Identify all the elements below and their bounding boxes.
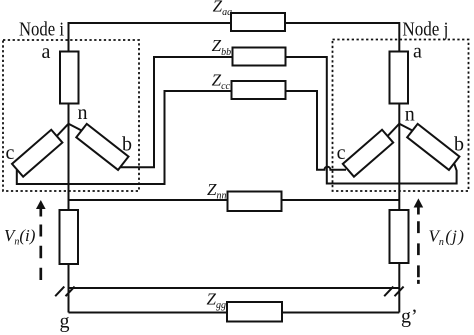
svg-text:g: g [60,311,70,333]
impedance Zcc box [232,81,286,99]
node j dashed boundary [333,40,469,192]
winding b node i [76,124,128,170]
winding a node i [60,52,79,104]
svg-text:n: n [405,103,415,125]
impedance Zaa box [231,13,285,31]
wire Zbb bus: node i b-end riser, horizontal, node j riser to b [120,57,456,184]
svg-text:c: c [337,142,346,164]
wire Zgg bottom bus [69,312,400,314]
wire node i center spine (a bottom through n to ground corner) [68,104,70,313]
impedance Znn box [228,192,282,212]
svg-text:Zbb: Zbb [212,36,231,58]
wire Zaa top bus (node i a-top to node j a-top) [69,23,400,52]
wire Zcc bus: node i c-end stub and horizontal, riser, node j side with hop [17,91,346,184]
wire node i n to winding b [69,124,82,131]
arrow Vn(i) dashed with head [36,200,46,280]
svg-text:Zgg: Zgg [207,290,226,312]
arrow Vn(j) dashed with head [414,198,424,284]
wire Znn bus [69,199,400,201]
svg-text:Node i: Node i [19,18,64,40]
svg-text:a: a [42,41,51,63]
svg-text:c: c [6,142,15,164]
svg-text:g’: g’ [401,306,418,328]
ground g hatch [55,287,74,297]
svg-text:n: n [78,102,88,124]
svg-text:a: a [413,41,422,63]
svg-text:b: b [122,133,132,155]
svg-text:Zaa: Zaa [213,0,232,18]
svg-text:Node j: Node j [402,19,448,41]
wire node j center spine [398,104,400,313]
ground g' hatch [384,287,403,297]
svg-text:b: b [454,133,464,155]
wire ground link bus [69,287,400,289]
neutral impedance node i (n to g) [60,210,79,264]
node i dashed boundary [3,40,139,191]
winding c node i [12,130,62,177]
wire node i n to winding c [57,124,69,136]
svg-text:Zcc: Zcc [212,71,231,92]
svg-text:Vn(i): Vn(i) [4,226,36,248]
impedance Zgg box [227,302,282,322]
winding a node j [390,52,409,104]
impedance Zbb box [233,48,286,66]
wire node j n to winding c [388,124,400,136]
winding b node j [407,124,459,170]
winding c node j [343,130,393,177]
neutral impedance node j (n to g') [390,210,409,263]
wire node j n to winding b [399,124,412,131]
svg-text:Vn(j): Vn(j) [429,227,465,249]
svg-text:Znn: Znn [207,180,226,202]
